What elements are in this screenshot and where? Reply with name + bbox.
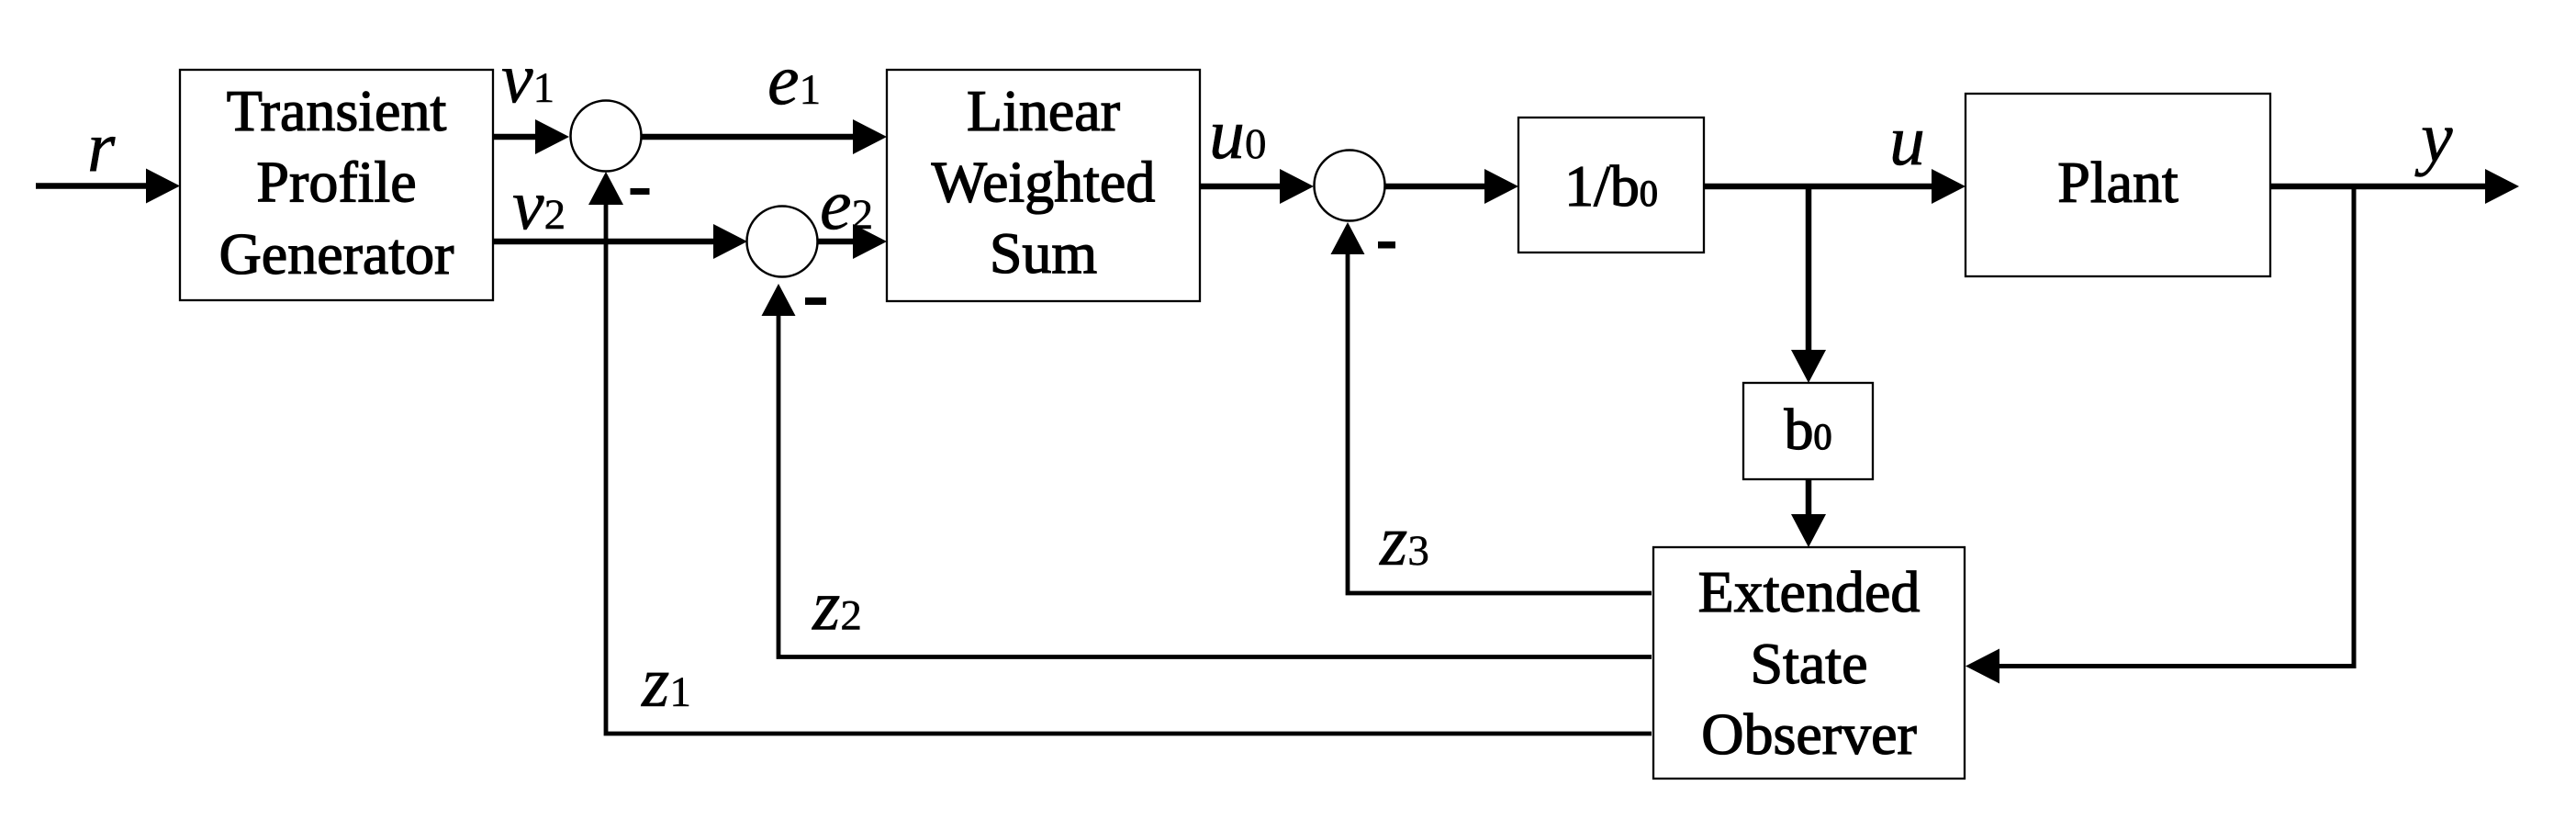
svg-text:Observer: Observer <box>1701 701 1917 767</box>
svg-text:Sum: Sum <box>990 220 1097 286</box>
svg-text:Extended: Extended <box>1698 559 1921 624</box>
svg-text:r: r <box>87 107 116 186</box>
svg-text:y: y <box>2414 97 2453 177</box>
svg-text:Weighted: Weighted <box>932 150 1156 215</box>
svg-text:Transient: Transient <box>227 78 447 143</box>
svg-text:u: u <box>1889 100 1925 180</box>
svg-text:State: State <box>1751 631 1868 696</box>
svg-text:Profile: Profile <box>256 150 416 215</box>
svg-text:Plant: Plant <box>2057 150 2178 215</box>
svg-text:Generator: Generator <box>219 221 454 286</box>
svg-text:Linear: Linear <box>967 78 1120 143</box>
